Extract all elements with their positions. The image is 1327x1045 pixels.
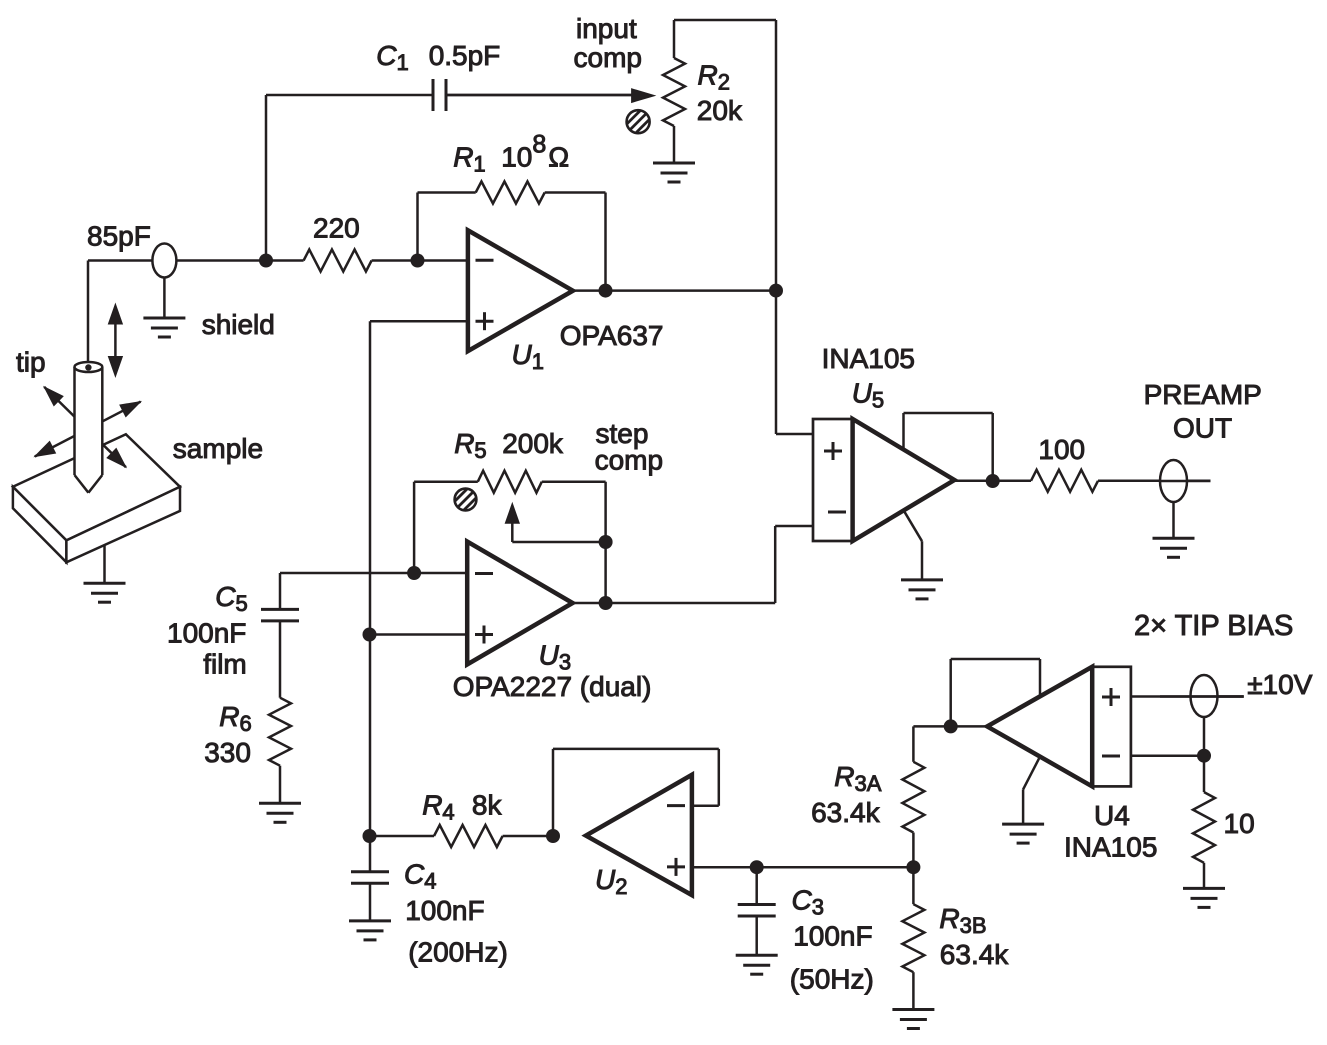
svg-text:2× TIP BIAS: 2× TIP BIAS bbox=[1134, 610, 1293, 642]
svg-text:sample: sample bbox=[173, 433, 263, 464]
svg-text:8k: 8k bbox=[472, 789, 503, 820]
svg-text:(200Hz): (200Hz) bbox=[408, 936, 508, 967]
svg-text:R5: R5 bbox=[454, 428, 486, 463]
svg-text:±10V: ±10V bbox=[1247, 669, 1313, 700]
svg-text:20k: 20k bbox=[697, 95, 743, 126]
svg-text:U3: U3 bbox=[539, 639, 571, 674]
svg-text:85pF: 85pF bbox=[87, 220, 151, 251]
svg-text:comp: comp bbox=[595, 445, 663, 476]
svg-text:100nF: 100nF bbox=[405, 895, 484, 926]
svg-text:0.5pF: 0.5pF bbox=[429, 40, 501, 71]
svg-text:INA105: INA105 bbox=[1064, 832, 1157, 863]
svg-text:OPA2227 (dual): OPA2227 (dual) bbox=[453, 671, 652, 702]
svg-text:shield: shield bbox=[202, 309, 275, 340]
svg-text:330: 330 bbox=[204, 737, 251, 768]
svg-text:220: 220 bbox=[313, 212, 360, 243]
svg-text:U1: U1 bbox=[512, 339, 544, 374]
svg-text:63.4k: 63.4k bbox=[811, 797, 880, 828]
svg-text:100: 100 bbox=[1038, 434, 1085, 465]
svg-text:R6: R6 bbox=[219, 701, 251, 736]
svg-text:U4: U4 bbox=[1094, 800, 1130, 831]
svg-text:C5: C5 bbox=[215, 581, 247, 616]
svg-text:U2: U2 bbox=[595, 864, 627, 899]
svg-text:INA105: INA105 bbox=[822, 343, 915, 374]
svg-text:OPA637: OPA637 bbox=[560, 320, 664, 351]
svg-text:C4: C4 bbox=[404, 859, 436, 894]
svg-text:63.4k: 63.4k bbox=[940, 939, 1009, 970]
svg-text:film: film bbox=[203, 649, 247, 680]
svg-text:R3B: R3B bbox=[939, 903, 986, 938]
svg-text:U5: U5 bbox=[852, 378, 884, 413]
svg-text:C1: C1 bbox=[376, 40, 408, 75]
svg-text:100nF: 100nF bbox=[167, 617, 246, 648]
svg-text:PREAMP: PREAMP bbox=[1144, 379, 1262, 410]
svg-text:200k: 200k bbox=[502, 428, 564, 459]
svg-text:OUT: OUT bbox=[1173, 413, 1232, 444]
svg-text:R3A: R3A bbox=[834, 761, 881, 796]
svg-text:R4: R4 bbox=[422, 789, 454, 824]
svg-text:C3: C3 bbox=[792, 884, 824, 919]
svg-text:R1 108Ω: R1 108Ω bbox=[453, 131, 569, 177]
svg-text:100nF: 100nF bbox=[793, 920, 872, 951]
svg-text:comp: comp bbox=[574, 42, 642, 73]
svg-text:tip: tip bbox=[16, 347, 46, 378]
svg-text:(50Hz): (50Hz) bbox=[790, 964, 874, 995]
svg-text:10: 10 bbox=[1224, 808, 1255, 839]
svg-text:input: input bbox=[576, 13, 637, 44]
svg-text:R2: R2 bbox=[698, 59, 730, 94]
